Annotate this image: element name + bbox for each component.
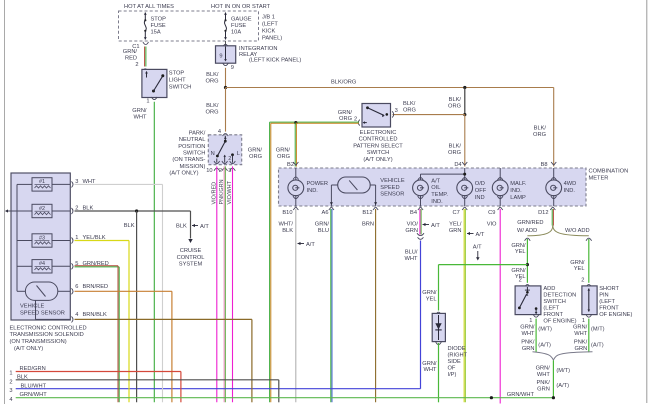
svg-text:VIO/: VIO/ bbox=[407, 221, 419, 227]
wire GRN/YEL from split right arm down to short pin bbox=[570, 239, 589, 283]
wire GRN/WHT from stop light switch pin 1 down to page bottom bbox=[132, 97, 157, 402]
svg-text:D12: D12 bbox=[538, 210, 548, 216]
svg-text:YEL: YEL bbox=[574, 266, 585, 272]
svg-text:BLK/: BLK/ bbox=[449, 143, 462, 149]
wire VIO/RED from P/N switch pin 10 down bbox=[211, 166, 217, 402]
svg-text:CRUISE: CRUISE bbox=[180, 248, 202, 254]
svg-text:GRN/: GRN/ bbox=[338, 110, 353, 116]
svg-text:WHT: WHT bbox=[134, 115, 147, 121]
svg-text:FRONT: FRONT bbox=[543, 312, 563, 318]
meter pin C7 bottom with lead bbox=[453, 195, 468, 216]
svg-text:BLU: BLU bbox=[318, 228, 329, 234]
svg-text:PANEL): PANEL) bbox=[262, 36, 282, 42]
wire GRN/ORG long vertical down to page bottom bbox=[248, 122, 271, 402]
svg-text:3: 3 bbox=[9, 388, 12, 394]
junction node on GRN/WHT bus bbox=[490, 396, 493, 399]
wire from gauge fuse to integration relay bbox=[223, 41, 229, 47]
svg-text:ORG: ORG bbox=[277, 154, 290, 160]
svg-text:CONTROLLED: CONTROLLED bbox=[359, 137, 398, 143]
svg-text:YEL: YEL bbox=[515, 249, 526, 255]
svg-text:BLK: BLK bbox=[282, 228, 293, 234]
svg-text:PNK/GRN: PNK/GRN bbox=[219, 179, 225, 204]
svg-text:IND.: IND. bbox=[431, 199, 443, 205]
pins 10, 2, 3 of park/neutral switch bbox=[206, 168, 235, 174]
svg-text:PNK/: PNK/ bbox=[521, 340, 535, 346]
svg-text:(M/T): (M/T) bbox=[591, 327, 605, 333]
pin 9 of integration relay bbox=[223, 63, 234, 71]
meter pin A6 bottom bbox=[322, 207, 334, 216]
svg-text:BLK/: BLK/ bbox=[206, 72, 219, 78]
svg-text:NEUTRAL: NEUTRAL bbox=[179, 137, 206, 143]
svg-text:(LEFT: (LEFT bbox=[262, 22, 278, 28]
electronic controlled pattern select switch bbox=[353, 104, 403, 164]
park/neutral position switch (dashed box) bbox=[208, 129, 241, 165]
meter pin C9 bottom bbox=[488, 207, 503, 216]
VSS pin 1 and wire YEL/BLK bbox=[72, 235, 130, 402]
integration relay (left kick panel) bbox=[216, 46, 302, 64]
vehicle speed sensor / ECT solenoid box bbox=[5, 173, 70, 320]
bus wire 1 RED/GRN bbox=[9, 366, 181, 402]
wire GRN/WHT / PNK/GRN from ADD switch pin 1 down to brace bbox=[520, 319, 552, 353]
lamp MALF IND LAMP bbox=[492, 168, 527, 206]
svg-text:BRN: BRN bbox=[362, 221, 374, 227]
svg-text:ORG: ORG bbox=[533, 132, 546, 138]
svg-text:A/T: A/T bbox=[200, 224, 209, 230]
svg-text:VIO: VIO bbox=[487, 221, 497, 227]
VSS pin 4 and wire BRN/BLK bbox=[72, 312, 252, 402]
svg-text:WHT: WHT bbox=[405, 256, 418, 262]
wire GRN/WHT stem from brace down to GRN/WHT bus bbox=[536, 360, 571, 397]
svg-text:TEMP.: TEMP. bbox=[431, 192, 448, 198]
svg-text:B10: B10 bbox=[282, 210, 292, 216]
svg-text:HOT IN ON OR START: HOT IN ON OR START bbox=[211, 4, 271, 10]
svg-text:BLK: BLK bbox=[176, 224, 187, 230]
svg-text:GRN/: GRN/ bbox=[315, 221, 330, 227]
annotation A/T arrow at YEL/GRN wire bbox=[467, 232, 485, 238]
diode (right side of I/P) bbox=[432, 312, 467, 378]
wire GRN/YEL down to diode bbox=[422, 265, 438, 311]
svg-text:VEHICLE: VEHICLE bbox=[20, 304, 45, 310]
svg-text:(LEFT KICK PANEL): (LEFT KICK PANEL) bbox=[249, 57, 301, 63]
svg-text:15A: 15A bbox=[151, 30, 161, 36]
wire GRN/YEL horizontal from junction to diode column bbox=[439, 264, 528, 266]
junction node GRN/ORG at B2 branch bbox=[294, 121, 297, 124]
annotation A/T arrow at WHT/BLK wire bbox=[298, 242, 316, 248]
svg-text:VIO/WHT: VIO/WHT bbox=[227, 180, 233, 204]
svg-text:GRN: GRN bbox=[537, 387, 550, 393]
svg-text:2: 2 bbox=[9, 379, 12, 385]
svg-text:9: 9 bbox=[231, 65, 234, 71]
wire VIO/WHT from P/N switch pin 3 down bbox=[227, 166, 233, 402]
svg-text:GRN: GRN bbox=[575, 346, 588, 352]
split of D12 wire into W/ ADD and W/O ADD branches bbox=[517, 226, 592, 241]
svg-text:OIL: OIL bbox=[431, 185, 440, 191]
svg-text:(RIGHT: (RIGHT bbox=[448, 352, 468, 358]
ADD detection switch (left front of engine) bbox=[515, 277, 577, 324]
meter pin B8 top bbox=[541, 162, 557, 181]
svg-text:GRN/RED: GRN/RED bbox=[517, 220, 543, 226]
svg-text:10: 10 bbox=[206, 168, 212, 174]
svg-text:A/T: A/T bbox=[431, 223, 440, 229]
svg-text:SENSOR: SENSOR bbox=[380, 192, 404, 198]
svg-text:4: 4 bbox=[218, 129, 221, 135]
svg-text:GRN: GRN bbox=[405, 228, 418, 234]
junction node on BLK/ORG at relay branch bbox=[224, 86, 227, 89]
svg-text:GRN: GRN bbox=[522, 346, 535, 352]
svg-text:PIN: PIN bbox=[599, 292, 608, 298]
fuse STOP FUSE 15A bbox=[144, 12, 166, 40]
wire BLK/ORG junction down to park/neutral switch pin 4 bbox=[206, 88, 226, 132]
svg-text:WHT: WHT bbox=[537, 372, 550, 378]
svg-text:(A/T ONLY): (A/T ONLY) bbox=[363, 157, 392, 163]
svg-text:BLU/: BLU/ bbox=[405, 249, 418, 255]
fuse GAUGE FUSE 10A bbox=[224, 12, 252, 40]
meter pin D12 bottom bbox=[538, 207, 555, 216]
svg-text:METER: METER bbox=[589, 175, 609, 181]
svg-text:RED: RED bbox=[125, 56, 137, 62]
svg-text:A/T: A/T bbox=[431, 178, 440, 184]
svg-text:O/D: O/D bbox=[475, 181, 485, 187]
svg-text:FUSE: FUSE bbox=[231, 23, 246, 29]
svg-text:GRN: GRN bbox=[449, 228, 462, 234]
lamp O/D OFF IND bbox=[457, 180, 487, 201]
svg-text:2: 2 bbox=[519, 277, 522, 283]
svg-text:N: N bbox=[211, 151, 215, 157]
svg-text:DIODE: DIODE bbox=[448, 346, 466, 352]
svg-text:MALF.: MALF. bbox=[510, 181, 527, 187]
svg-text:IND: IND bbox=[475, 195, 485, 201]
svg-text:C7: C7 bbox=[453, 210, 460, 216]
svg-text:2: 2 bbox=[135, 62, 138, 68]
svg-text:A/T: A/T bbox=[473, 245, 482, 251]
svg-text:BLK/: BLK/ bbox=[206, 103, 219, 109]
svg-text:ELECTRONIC: ELECTRONIC bbox=[360, 130, 397, 136]
svg-text:A/T: A/T bbox=[306, 242, 315, 248]
svg-text:1: 1 bbox=[582, 318, 585, 324]
svg-text:(ON TRANSMISSION): (ON TRANSMISSION) bbox=[10, 339, 67, 345]
svg-text:YEL: YEL bbox=[426, 297, 437, 303]
wire BRN from meter pin B12 down to page bottom bbox=[362, 209, 376, 402]
svg-text:I/P): I/P) bbox=[448, 372, 457, 378]
svg-text:ORG: ORG bbox=[249, 154, 262, 160]
svg-text:STOP: STOP bbox=[151, 17, 167, 23]
svg-text:FUSE: FUSE bbox=[151, 23, 166, 29]
svg-text:B8: B8 bbox=[541, 162, 548, 168]
svg-text:B12: B12 bbox=[362, 210, 372, 216]
svg-text:2: 2 bbox=[219, 168, 222, 174]
svg-text:BRN/RED: BRN/RED bbox=[83, 284, 109, 290]
wire GRN/BLU from meter pin A6 down to page bottom bbox=[315, 209, 332, 402]
svg-text:OF ENGINE): OF ENGINE) bbox=[599, 312, 632, 318]
svg-text:SPEED SENSOR: SPEED SENSOR bbox=[20, 310, 65, 316]
svg-text:2: 2 bbox=[581, 277, 584, 283]
svg-text:1: 1 bbox=[146, 99, 149, 105]
wire BLK/ORG horizontal from relay junction to right corner at B8 column bbox=[226, 80, 554, 88]
wire GRN/WHT / PNK/GRN from short pin pin 1 down to brace bbox=[573, 319, 605, 353]
svg-text:PATTERN SELECT: PATTERN SELECT bbox=[353, 143, 403, 149]
svg-text:GRN/: GRN/ bbox=[511, 243, 526, 249]
park/neutral position switch caption bbox=[169, 130, 205, 176]
pin 3 of pattern select switch bbox=[392, 111, 394, 117]
svg-text:A/T: A/T bbox=[476, 232, 485, 238]
svg-text:SWITCH: SWITCH bbox=[543, 299, 565, 305]
wire VIO/GRN from meter pin B4 to connector break bbox=[405, 209, 424, 239]
bus wire 4 GRN/WHT bbox=[9, 392, 553, 403]
svg-text:(A/T): (A/T) bbox=[556, 383, 569, 389]
svg-text:VEHICLE: VEHICLE bbox=[380, 178, 405, 184]
svg-text:BLK/: BLK/ bbox=[534, 125, 547, 131]
svg-text:GAUGE: GAUGE bbox=[231, 17, 252, 23]
junction node BLK bbox=[135, 209, 138, 212]
combination meter (dashed box) bbox=[279, 168, 629, 206]
meter pin B10 bottom with lead bbox=[282, 195, 298, 216]
svg-text:VIO/RED: VIO/RED bbox=[211, 182, 217, 205]
svg-text:HOT AT ALL TIMES: HOT AT ALL TIMES bbox=[124, 4, 174, 10]
svg-text:J/B 1: J/B 1 bbox=[262, 15, 275, 21]
pin 1 of short pin bbox=[582, 315, 592, 324]
wire WHT/BLK from meter pin B10 down to page bottom bbox=[278, 209, 295, 402]
bus wire 2 BLK bbox=[9, 375, 278, 403]
wire BLK vertical down to page bottom bbox=[124, 211, 137, 402]
svg-text:WHT: WHT bbox=[522, 331, 535, 337]
svg-text:WHT/: WHT/ bbox=[278, 221, 293, 227]
svg-text:STOP: STOP bbox=[169, 70, 185, 76]
svg-text:GRN/: GRN/ bbox=[570, 260, 585, 266]
svg-text:SWITCH: SWITCH bbox=[183, 151, 205, 157]
lamp A/T OIL TEMP IND bbox=[413, 178, 449, 204]
meter pin D4 top and internal junction to A/T oil temp and O/D off lamps bbox=[418, 162, 468, 181]
svg-text:GRN/: GRN/ bbox=[123, 49, 138, 55]
svg-text:ORG: ORG bbox=[448, 150, 461, 156]
svg-text:SWITCH: SWITCH bbox=[169, 84, 191, 90]
svg-text:4: 4 bbox=[75, 312, 78, 318]
svg-text:LAMP: LAMP bbox=[510, 195, 526, 201]
svg-text:GRN/: GRN/ bbox=[276, 148, 291, 154]
meter pin B2 top bbox=[287, 162, 299, 180]
stop light switch SW1 bbox=[142, 69, 191, 97]
svg-text:PARK/: PARK/ bbox=[189, 130, 206, 136]
svg-text:(LEFT: (LEFT bbox=[543, 305, 559, 311]
svg-text:ORG: ORG bbox=[339, 116, 352, 122]
svg-text:GRN/: GRN/ bbox=[132, 108, 147, 114]
wire GRN/ORG branch down to combination meter pin B2 bbox=[276, 123, 297, 167]
VSS pin 5 and wire GRN/RED bbox=[72, 261, 120, 402]
svg-text:PNK/: PNK/ bbox=[537, 380, 551, 386]
meter pin B12 bottom bbox=[362, 207, 378, 216]
svg-text:1: 1 bbox=[529, 318, 532, 324]
svg-text:GRN/: GRN/ bbox=[536, 365, 551, 371]
svg-text:WHT: WHT bbox=[424, 367, 437, 373]
svg-text:ADD: ADD bbox=[543, 286, 555, 292]
svg-text:ELECTRONIC CONTROLLED: ELECTRONIC CONTROLLED bbox=[10, 325, 87, 331]
svg-text:4WD: 4WD bbox=[564, 181, 577, 187]
svg-text:KICK: KICK bbox=[262, 29, 275, 35]
lamp POWER IND bbox=[288, 180, 328, 196]
svg-text:(M/T): (M/T) bbox=[556, 368, 570, 374]
vehicle speed sensor box caption bbox=[10, 325, 87, 352]
svg-text:L: L bbox=[237, 151, 240, 157]
svg-text:POWER: POWER bbox=[307, 181, 329, 187]
wire VIO from meter pin C9 down to page bottom bbox=[487, 209, 501, 404]
svg-text:TRANSMISSION SOLENOID: TRANSMISSION SOLENOID bbox=[10, 332, 84, 338]
svg-text:OF: OF bbox=[448, 365, 456, 371]
svg-text:SWITCH: SWITCH bbox=[367, 150, 389, 156]
svg-text:6: 6 bbox=[75, 284, 78, 290]
wire GRN/YEL from split left arm down to ADD detection switch bbox=[511, 239, 527, 283]
wire GRN/RED from C1 to stop light switch pin 2 bbox=[123, 47, 148, 72]
lamp 4WD IND bbox=[546, 180, 576, 206]
junction node BLK/ORG at x=465 lower bbox=[463, 113, 466, 116]
svg-text:ORG: ORG bbox=[448, 103, 461, 109]
junction node BLK/ORG at x=465 bbox=[463, 86, 466, 89]
svg-text:IND.: IND. bbox=[564, 188, 576, 194]
svg-text:DETECTION: DETECTION bbox=[543, 292, 576, 298]
svg-text:ORG: ORG bbox=[206, 110, 219, 116]
svg-text:9: 9 bbox=[219, 54, 222, 60]
svg-text:B2: B2 bbox=[287, 162, 294, 168]
wire BLK/ORG from junction down to combination meter pin D4 bbox=[448, 115, 465, 167]
annotation A/T with down arrow to GRN/YEL line bbox=[473, 245, 482, 261]
svg-text:LIGHT: LIGHT bbox=[169, 77, 186, 83]
svg-text:10A: 10A bbox=[231, 30, 241, 36]
svg-text:YEL/: YEL/ bbox=[449, 221, 462, 227]
pin 1 of ADD detection switch bbox=[529, 315, 539, 324]
svg-text:CONTROL: CONTROL bbox=[177, 255, 205, 261]
svg-text:SYSTEM: SYSTEM bbox=[179, 261, 203, 267]
svg-text:GRN/: GRN/ bbox=[422, 361, 437, 367]
svg-text:BLK: BLK bbox=[124, 223, 135, 229]
svg-text:(ON TRANS-: (ON TRANS- bbox=[172, 157, 205, 163]
svg-text:1: 1 bbox=[9, 371, 12, 377]
svg-text:W/O ADD: W/O ADD bbox=[565, 228, 590, 234]
wire PNK/GRN from P/N switch pin 2 down bbox=[219, 166, 226, 402]
svg-text:W/ ADD: W/ ADD bbox=[517, 228, 537, 234]
junction node at GRN/WHT bus right end bbox=[552, 396, 555, 399]
short pin (left front of engine) bbox=[581, 277, 632, 317]
svg-text:SPEED: SPEED bbox=[380, 185, 399, 191]
wire BLK vertical segment between junctions at x=465 bbox=[448, 88, 465, 115]
connector C1 bbox=[132, 42, 148, 50]
vehicle speed sensor (reed) inside meter bbox=[330, 177, 405, 206]
wire GRN/RED from meter pin D12 to W/ADD split bbox=[517, 209, 553, 226]
svg-text:C9: C9 bbox=[488, 210, 495, 216]
svg-text:MISSION): MISSION) bbox=[179, 164, 205, 170]
meter pin B4 bottom with lead bbox=[410, 195, 423, 216]
wire BLK/ORG from relay pin 9 down to junction bbox=[206, 68, 226, 88]
svg-text:ORG: ORG bbox=[403, 108, 416, 114]
annotation A/T arrow at VIO/GRN wire bbox=[423, 223, 441, 229]
svg-text:OFF: OFF bbox=[475, 188, 487, 194]
wire BLK/ORG from junction left to pattern select switch pin 3 bbox=[393, 101, 465, 114]
svg-text:SHORT: SHORT bbox=[599, 286, 619, 292]
svg-text:IND.: IND. bbox=[510, 188, 522, 194]
svg-text:4: 4 bbox=[9, 397, 12, 403]
junction node GRN/YEL bbox=[526, 263, 529, 266]
svg-text:FRONT: FRONT bbox=[599, 305, 619, 311]
wire BLU/WHT from connector break down and left to bus line 3 bbox=[16, 241, 421, 389]
svg-text:3: 3 bbox=[395, 108, 398, 114]
svg-text:OF ENGINE): OF ENGINE) bbox=[543, 318, 576, 324]
svg-text:GRN/: GRN/ bbox=[248, 148, 263, 154]
pin 2 of pattern select switch bbox=[354, 117, 360, 126]
svg-text:BLK/: BLK/ bbox=[449, 97, 462, 103]
wire BLK to cruise control system with arrow bbox=[176, 211, 209, 267]
svg-text:(M/T): (M/T) bbox=[538, 327, 552, 333]
svg-text:(A/T ONLY): (A/T ONLY) bbox=[169, 170, 198, 176]
wire YEL/GRN from meter pin C7 down to page bottom bbox=[449, 209, 465, 402]
svg-text:GRN/: GRN/ bbox=[511, 268, 526, 274]
svg-text:D4: D4 bbox=[454, 162, 461, 168]
svg-text:(A/T): (A/T) bbox=[538, 342, 551, 348]
svg-text:SIDE: SIDE bbox=[448, 359, 461, 365]
svg-text:GRN/: GRN/ bbox=[422, 290, 437, 296]
svg-text:POSITION: POSITION bbox=[178, 144, 205, 150]
VSS pin 6 and wire BRN/RED bbox=[72, 284, 172, 402]
svg-text:WHT: WHT bbox=[574, 331, 587, 337]
svg-text:(A/T ONLY): (A/T ONLY) bbox=[14, 346, 43, 352]
VSS pin 2 and wire BLK bbox=[72, 206, 191, 214]
svg-text:B4: B4 bbox=[410, 210, 417, 216]
bus wire 3 BLU/WHT label bbox=[9, 383, 46, 394]
wire BLK/ORG right segment down to combination meter pin B8 bbox=[533, 88, 554, 167]
svg-text:PNK/: PNK/ bbox=[574, 340, 588, 346]
svg-text:BLK/ORG: BLK/ORG bbox=[331, 80, 356, 86]
svg-text:BLU/WHT: BLU/WHT bbox=[21, 383, 47, 389]
junction block J/B 1 (dashed box, left kick panel) bbox=[119, 4, 283, 41]
brace merging ADD switch and short pin wires bbox=[533, 352, 593, 360]
svg-text:GRN/WHT: GRN/WHT bbox=[507, 392, 535, 398]
svg-text:GRN/: GRN/ bbox=[520, 324, 535, 330]
svg-text:GRN/: GRN/ bbox=[573, 324, 588, 330]
svg-text:A6: A6 bbox=[322, 210, 329, 216]
svg-text:IND.: IND. bbox=[307, 188, 319, 194]
svg-text:ORG: ORG bbox=[206, 79, 219, 85]
svg-text:BRN/BLK: BRN/BLK bbox=[83, 312, 108, 318]
svg-text:(LEFT: (LEFT bbox=[599, 299, 615, 305]
svg-text:COMBINATION: COMBINATION bbox=[589, 169, 629, 175]
svg-text:(A/T): (A/T) bbox=[591, 342, 604, 348]
wire GRN/WHT from diode down to page bottom bbox=[422, 343, 438, 402]
wire GRN/ORG from pattern select pin 2 to left corner bbox=[270, 110, 359, 124]
VSS pin 3 and wire WHT to page bottom bbox=[72, 179, 163, 402]
svg-text:BLK/: BLK/ bbox=[403, 101, 416, 107]
